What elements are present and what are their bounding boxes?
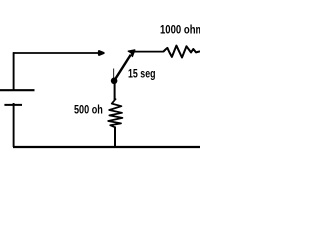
switch S1 lever — [114, 55, 131, 81]
svg-text:15 seg: 15 seg — [128, 67, 156, 81]
battery B1 short plate — [4, 104, 22, 106]
svg-text:1000 ohm: 1000 ohm — [160, 23, 200, 37]
arrowhead at end of top wire — [99, 51, 104, 55]
wire battery negative lead down — [13, 103, 15, 147]
wire switch pivot down to resistor R2 — [114, 81, 116, 100]
arrowhead at lever tip — [128, 50, 135, 56]
resistor R2 scribble (500 oh) — [108, 99, 122, 128]
wire switch to resistor R1 — [134, 51, 164, 53]
wire left vertical (battery positive lead) — [13, 52, 15, 90]
battery B1 long plate — [0, 89, 35, 91]
switch S1 pivot dot — [111, 78, 118, 85]
thin stub above switch pivot — [113, 69, 115, 81]
wire resistor R2 bottom lead — [114, 127, 116, 148]
svg-text:500 oh: 500 oh — [74, 103, 103, 117]
resistor R1 zigzag (1000 ohm) — [163, 46, 200, 58]
wire bottom horizontal — [13, 146, 200, 148]
wire top horizontal from battery to switch contact — [13, 52, 98, 54]
